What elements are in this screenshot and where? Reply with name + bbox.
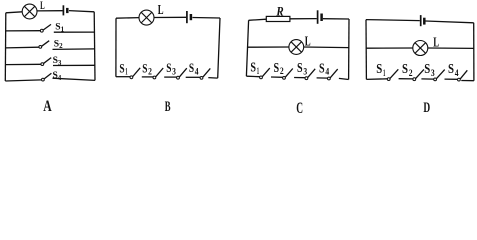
wire: C top-left to resistor — [249, 19, 267, 20]
wire: A rung2 left segment — [6, 46, 39, 49]
svg-text:L: L — [158, 2, 164, 17]
svg-text:3: 3 — [58, 59, 62, 67]
wire: C bottom segment 3 — [294, 77, 305, 79]
svg-text:B: B — [165, 99, 171, 115]
svg-text:D: D — [423, 100, 430, 116]
svg-text:S: S — [119, 60, 124, 75]
svg-text:1: 1 — [383, 68, 386, 78]
wire: B lamp to battery — [154, 16, 186, 18]
switch S2 (circuit D) — [413, 69, 424, 80]
wire: D middle row left of lamp — [366, 47, 413, 49]
wire: B top-left to lamp — [116, 17, 139, 20]
svg-text:2: 2 — [280, 66, 284, 76]
switch S1 (circuit A) — [40, 24, 51, 32]
switch S1 (circuit B) — [130, 68, 140, 79]
svg-text:2: 2 — [148, 67, 152, 77]
svg-text:4: 4 — [325, 67, 329, 77]
lamp L (circuit B) — [139, 10, 154, 25]
wire: A bottom-right segment (rung4) — [53, 78, 96, 80]
switch S1 (circuit C) — [260, 68, 270, 79]
switch S1 (circuit D) — [387, 69, 398, 80]
wire: A rung3 left segment — [6, 63, 41, 65]
wire: D middle row right of lamp — [428, 47, 474, 49]
wire: A rung1 left segment — [6, 30, 41, 32]
wire: A lamp to battery — [37, 10, 63, 12]
wire: C middle row left of lamp — [247, 46, 289, 48]
wire: A top-left to lamp — [6, 12, 22, 13]
wire: C battery to top-right corner — [323, 18, 349, 20]
resistor R (circuit C) — [266, 16, 290, 21]
svg-text:1: 1 — [257, 66, 260, 76]
svg-text:S: S — [166, 60, 171, 75]
svg-text:4: 4 — [58, 74, 62, 82]
wire: C middle row right of lamp — [304, 46, 349, 49]
switch S3 (circuit A) — [41, 58, 51, 66]
svg-text:S: S — [402, 62, 408, 77]
switch S4 (circuit B) — [200, 68, 210, 79]
switch S3 (circuit D) — [434, 70, 445, 81]
svg-text:4: 4 — [455, 68, 459, 78]
lamp L (circuit C) — [289, 40, 304, 55]
svg-text:S: S — [424, 62, 430, 77]
wire: B bottom segment 2 — [142, 76, 153, 78]
switch S4 (circuit A) — [42, 73, 52, 81]
wire: D bottom segment 1 — [366, 78, 387, 81]
wire: D battery to top-right corner — [426, 21, 474, 23]
svg-text:S: S — [189, 60, 194, 75]
wire: C bottom segment 4 — [317, 77, 328, 79]
wire: B bottom segment 5 — [208, 77, 217, 80]
battery cell (circuit C) — [318, 10, 322, 23]
wire: B bottom segment 4 — [186, 76, 200, 78]
switch S3 (circuit C) — [305, 69, 315, 80]
wire: C right vertical — [348, 19, 350, 80]
switch S4 (circuit D) — [458, 70, 468, 81]
lamp L (circuit D) — [413, 41, 428, 56]
wire: A rung1 right segment — [54, 31, 95, 33]
wire: A rung2 right segment — [53, 48, 95, 51]
battery cell (circuit A) — [63, 5, 67, 15]
svg-text:L: L — [305, 33, 311, 48]
switch S2 (circuit B) — [153, 68, 163, 79]
switch S2 (circuit C) — [283, 69, 293, 80]
svg-text:4: 4 — [195, 67, 199, 77]
wire: C bottom segment 5 — [339, 78, 349, 79]
wire: D bottom segment 2 — [399, 78, 413, 80]
svg-text:R: R — [276, 4, 284, 18]
wire: C bottom segment 1 — [246, 75, 259, 78]
wire: D left vertical — [365, 20, 367, 80]
wire: B bottom segment 3 — [164, 76, 176, 78]
wire: A bottom-left segment (rung4) — [5, 80, 41, 81]
svg-text:2: 2 — [59, 42, 63, 50]
wire: A rung3 right segment — [53, 64, 95, 66]
wire: D bottom segment 4 — [445, 78, 458, 80]
svg-text:3: 3 — [172, 67, 176, 77]
wire: A battery to top-right corner — [69, 11, 94, 12]
battery cell (circuit B) — [187, 11, 191, 23]
wire: A right vertical — [93, 12, 96, 81]
switch S2 (circuit A) — [39, 41, 49, 49]
lamp L (circuit A) — [22, 4, 37, 19]
svg-text:S: S — [250, 60, 256, 75]
switch S3 (circuit B) — [177, 68, 187, 79]
wire: B bottom segment 1 — [116, 76, 130, 78]
wire: A left vertical — [4, 13, 7, 81]
svg-text:S: S — [376, 62, 382, 77]
svg-text:3: 3 — [431, 68, 435, 78]
svg-text:A: A — [43, 98, 52, 115]
wire: C left vertical — [246, 20, 248, 76]
svg-text:S: S — [297, 60, 303, 75]
wire: D top-left to battery — [366, 20, 420, 21]
svg-text:S: S — [319, 60, 325, 75]
svg-text:C: C — [296, 100, 303, 117]
switch S4 (circuit C) — [328, 69, 338, 80]
wire: B left vertical — [115, 18, 117, 76]
wire: D bottom segment 5 — [461, 80, 474, 82]
wire: C bottom segment 2 — [271, 76, 283, 78]
battery cell (circuit D) — [421, 15, 425, 26]
svg-text:2: 2 — [409, 68, 413, 78]
svg-text:1: 1 — [61, 25, 65, 33]
wire: D right vertical — [473, 23, 475, 81]
svg-text:L: L — [40, 0, 45, 12]
svg-text:1: 1 — [125, 67, 128, 77]
svg-text:L: L — [433, 35, 439, 50]
svg-text:S: S — [274, 60, 280, 75]
wire: D bottom segment 3 — [421, 78, 433, 80]
wire: C resistor to battery — [290, 18, 317, 20]
svg-text:S: S — [142, 60, 147, 75]
svg-text:3: 3 — [303, 66, 307, 76]
wire: B right vertical — [218, 18, 220, 78]
svg-text:S: S — [448, 62, 454, 77]
wire: B battery to top-right corner — [192, 17, 220, 20]
